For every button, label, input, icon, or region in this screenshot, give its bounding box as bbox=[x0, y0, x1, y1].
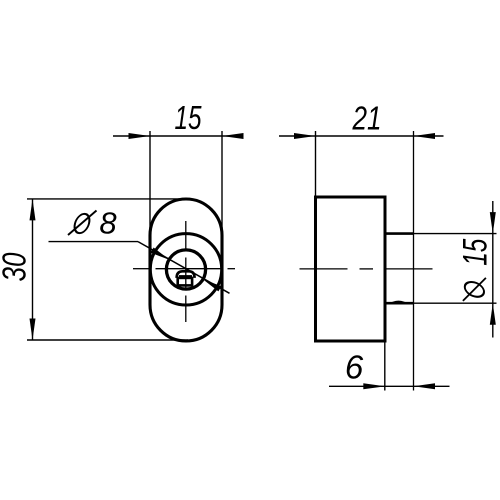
dimension 6 extension line bbox=[384, 341, 386, 391]
dimension Ø8 diagonal line bbox=[138, 242, 230, 294]
dimension 21 arrows bbox=[294, 133, 435, 139]
dimension 15 extension lines bbox=[150, 131, 222, 235]
dimension Ø15 value label with diameter symbol bbox=[457, 239, 495, 301]
dimension 15 arrows bbox=[129, 133, 244, 139]
cylinder plug circle Ø8 bbox=[166, 250, 205, 289]
dimension 6 line bbox=[329, 385, 450, 387]
svg-text:6: 6 bbox=[345, 349, 364, 386]
side view boss bottom line with fillet arc bbox=[385, 301, 414, 305]
keyhole bbox=[177, 271, 195, 285]
dimension Ø15 arrows bbox=[490, 212, 496, 325]
dimension Ø15 extension lines bbox=[414, 234, 497, 304]
dimension 21 line bbox=[279, 135, 444, 137]
dimension 30 extension lines bbox=[27, 199, 188, 340]
dimension Ø8 value label bbox=[99, 206, 117, 241]
dimension 15 line bbox=[113, 135, 240, 137]
side view body rectangle bbox=[316, 197, 386, 341]
dimension Ø15 line bbox=[492, 201, 494, 338]
dimension 30 arrows bbox=[30, 199, 36, 340]
dimension Ø8 arrows bbox=[151, 248, 222, 292]
dimension 30 line bbox=[32, 199, 34, 340]
front view obround outline bbox=[150, 199, 222, 341]
svg-text:15: 15 bbox=[175, 99, 202, 136]
svg-text:30: 30 bbox=[0, 252, 33, 282]
svg-text:15: 15 bbox=[457, 239, 495, 266]
dimension 21 value label bbox=[352, 100, 382, 137]
dimension 30 value label bbox=[0, 252, 33, 282]
front view horizontal centerline bbox=[133, 268, 235, 270]
dimension 21 extension line bbox=[315, 131, 317, 196]
svg-text:8: 8 bbox=[99, 206, 117, 241]
front view vertical centerline bbox=[185, 221, 187, 322]
knob circle Ø15 bbox=[150, 234, 221, 305]
svg-text:21: 21 bbox=[352, 100, 382, 137]
dimension Ø8 diameter symbol bbox=[68, 211, 97, 236]
dimension 6 arrows bbox=[363, 383, 435, 389]
side view boss right edge / extension line bbox=[413, 131, 415, 391]
side view boss top line bbox=[385, 232, 414, 235]
dimension 15 value label bbox=[175, 99, 202, 136]
dimension Ø8 leader underline bbox=[49, 241, 139, 243]
dimension 6 value label bbox=[345, 349, 364, 386]
side view centerline bbox=[300, 268, 433, 270]
